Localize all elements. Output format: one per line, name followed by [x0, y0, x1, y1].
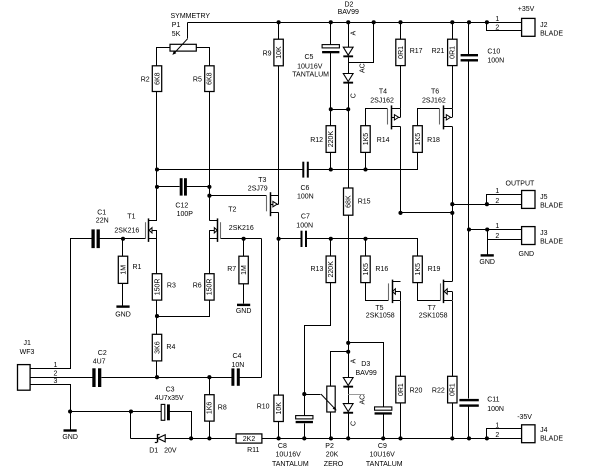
svg-text:R1: R1	[133, 264, 142, 271]
wire rail to D2	[348, 23, 350, 48]
resistor R1	[118, 256, 141, 283]
node D3 C9	[346, 341, 350, 345]
svg-text:T7: T7	[428, 305, 436, 312]
svg-text:C11: C11	[487, 396, 499, 403]
wire node C5/D2	[331, 109, 349, 111]
connector J4 BLADE -35V	[495, 414, 563, 443]
resistor R9	[263, 39, 284, 66]
wire R13 bottom jog	[305, 283, 331, 416]
svg-text:10K: 10K	[276, 46, 283, 59]
wire T6 drain to T7 drain	[452, 127, 454, 282]
node rail J4	[485, 436, 489, 440]
svg-text:20K: 20K	[326, 452, 339, 459]
wire T2 gate to C4	[261, 239, 263, 378]
node rail R21	[450, 20, 454, 24]
transistor T3 2SJ79	[267, 192, 279, 216]
wire T5 source to R20	[400, 301, 402, 377]
resistor R12	[310, 126, 335, 153]
wire rail to R21	[452, 23, 454, 40]
node input R4	[155, 375, 159, 379]
svg-text:22N: 22N	[96, 217, 109, 224]
node output J5	[485, 202, 489, 206]
svg-text:1: 1	[495, 16, 499, 23]
svg-text:D3: D3	[361, 361, 370, 368]
svg-text:150R: 150R	[207, 279, 214, 296]
connector J2 BLADE +35V	[495, 6, 563, 38]
wire C4 right	[240, 377, 262, 379]
svg-text:C12: C12	[175, 202, 188, 209]
svg-text:68K: 68K	[346, 195, 353, 208]
capacitor C11 100N	[459, 396, 504, 413]
svg-text:R21: R21	[432, 48, 445, 55]
svg-text:1: 1	[495, 188, 499, 195]
resistor R14	[361, 126, 390, 153]
svg-text:R5: R5	[193, 77, 202, 84]
capacitor C1 22N	[91, 210, 108, 248]
wire T3 drain to R10	[278, 239, 280, 396]
node gnd C10	[467, 227, 471, 231]
svg-text:BLADE: BLADE	[540, 31, 563, 38]
wire C12 left	[157, 186, 180, 188]
node rail C10	[467, 20, 471, 24]
node input R8	[207, 375, 211, 379]
wire P2 bottom	[330, 413, 332, 439]
svg-text:T2: T2	[228, 207, 236, 214]
wire D2 AC to rail	[349, 23, 374, 63]
svg-text:R19: R19	[428, 266, 441, 273]
diode D2 BAV99	[338, 1, 367, 98]
svg-text:0R1: 0R1	[450, 383, 457, 396]
resistor R15	[344, 188, 371, 215]
wire C3 tap down	[130, 412, 132, 439]
node rail C11	[467, 436, 471, 440]
resistor R6	[193, 274, 214, 300]
wire T1 source to R3	[156, 239, 158, 274]
svg-text:R6: R6	[193, 283, 202, 290]
svg-text:T1: T1	[127, 214, 135, 221]
svg-text:-35V: -35V	[517, 414, 532, 421]
svg-text:AC: AC	[360, 395, 367, 405]
wire J2 pin2 jog	[487, 23, 522, 31]
svg-text:220K: 220K	[328, 131, 335, 148]
wire rail to D1	[131, 438, 158, 440]
wire C7 to R13 R16 R19	[307, 239, 418, 257]
svg-text:1K5: 1K5	[415, 133, 422, 146]
svg-text:4U7: 4U7	[93, 359, 106, 366]
svg-text:GND: GND	[115, 312, 131, 319]
node R14 bottom	[363, 167, 367, 171]
svg-text:10U16V: 10U16V	[370, 452, 396, 459]
wire R7 top stub	[243, 239, 245, 257]
wire J5 pin1 jog	[487, 195, 522, 205]
svg-text:5K: 5K	[172, 31, 181, 38]
resistor R5	[193, 66, 214, 92]
svg-text:2SJ162: 2SJ162	[422, 98, 446, 105]
resistor R13	[311, 256, 336, 283]
svg-text:R13: R13	[311, 266, 324, 273]
wire gnd stub J1	[70, 411, 72, 430]
wire R18 to T6 gate	[418, 109, 440, 126]
svg-text:2SK216: 2SK216	[114, 227, 139, 234]
svg-text:0R1: 0R1	[398, 46, 405, 59]
wire P2 wiper wire	[305, 394, 321, 396]
svg-text:R11: R11	[247, 447, 259, 454]
svg-text:R12: R12	[310, 137, 323, 144]
ground under J1	[62, 429, 78, 441]
node C5 bias	[329, 107, 333, 111]
wire gnd row to C3	[71, 411, 162, 413]
svg-text:C6: C6	[301, 185, 310, 192]
svg-text:R17: R17	[410, 48, 423, 55]
wire T2 source to R6	[209, 239, 211, 274]
svg-text:2SJ79: 2SJ79	[248, 185, 268, 192]
node D2 C	[346, 107, 350, 111]
transistor T4 2SJ162	[388, 105, 401, 129]
svg-text:TANTALUM: TANTALUM	[366, 461, 403, 468]
svg-text:2SK1058: 2SK1058	[366, 312, 395, 319]
node rail C3	[189, 436, 193, 440]
svg-text:C10: C10	[487, 48, 500, 55]
resistor R17	[396, 39, 423, 65]
svg-text:BLADE: BLADE	[540, 239, 563, 246]
svg-text:2: 2	[53, 371, 57, 378]
svg-text:2SJ162: 2SJ162	[370, 98, 394, 105]
svg-text:2K2: 2K2	[243, 436, 256, 443]
transistor T7 2SK1058	[441, 280, 453, 304]
wire R2 to T1 drain	[156, 92, 158, 221]
resistor R19	[413, 256, 441, 283]
svg-text:J1: J1	[24, 340, 32, 347]
node T1 gate	[121, 237, 125, 241]
node T3 drain	[277, 237, 281, 241]
svg-text:R9: R9	[263, 51, 272, 58]
svg-text:1K5: 1K5	[415, 263, 422, 276]
svg-text:R10: R10	[257, 404, 270, 411]
node gnd J1	[68, 409, 72, 413]
wire C8 bottom	[304, 424, 306, 439]
svg-text:220K: 220K	[328, 261, 335, 278]
svg-text:A: A	[350, 31, 357, 36]
svg-text:1: 1	[495, 223, 499, 230]
node C12 left	[155, 185, 159, 189]
wire T3 gate	[210, 195, 267, 197]
resistor R11	[236, 434, 262, 454]
svg-text:R16: R16	[375, 266, 388, 273]
capacitor C7 100N	[296, 213, 313, 247]
node P2 wiper	[302, 392, 306, 396]
wire C5 to R12 top	[330, 53, 332, 126]
svg-text:D1: D1	[149, 448, 158, 455]
node rail J2	[485, 20, 489, 24]
connector J3 BLADE GND	[495, 223, 563, 258]
node rail P2	[329, 436, 333, 440]
node rail D2 AC	[372, 20, 376, 24]
wire R20 bottom	[400, 403, 402, 439]
wire R1 top stub	[122, 239, 124, 257]
svg-text:C8: C8	[278, 443, 287, 450]
wire T4 drain to output	[400, 127, 402, 213]
capacitor C6 100N	[297, 162, 314, 201]
resistor R22	[432, 376, 457, 403]
svg-text:R22: R22	[432, 388, 445, 395]
wire C3 right jog	[170, 412, 192, 439]
svg-text:TANTALUM: TANTALUM	[272, 461, 309, 468]
wire node to C7	[279, 238, 301, 240]
wire R21 to T6 source	[452, 66, 454, 109]
wire rail to C10	[468, 23, 470, 55]
svg-text:A: A	[350, 359, 357, 364]
svg-text:10U16V: 10U16V	[276, 452, 302, 459]
wire D3 to C9	[349, 343, 384, 407]
svg-text:100N: 100N	[487, 406, 504, 413]
svg-text:1M: 1M	[241, 265, 248, 275]
transistor T2 2SK216	[209, 218, 220, 242]
svg-text:BLADE: BLADE	[540, 203, 563, 210]
svg-text:T3: T3	[258, 177, 266, 184]
connector J5 BLADE OUTPUT	[495, 180, 563, 209]
svg-text:1: 1	[495, 423, 499, 430]
transistor T6 2SJ162	[440, 105, 453, 129]
svg-text:C1: C1	[97, 210, 106, 217]
wire J4 pin1 jog	[487, 429, 522, 439]
svg-text:BAV99: BAV99	[356, 370, 377, 377]
wire P1 right to R5	[197, 48, 210, 92]
resistor R10	[257, 395, 284, 421]
wire R15 to D3	[348, 216, 350, 378]
wire rail to C5	[330, 23, 332, 45]
svg-text:6K8: 6K8	[154, 72, 161, 85]
wire D3 to P2 top	[331, 352, 349, 387]
resistor R16	[361, 256, 389, 283]
node rail D3	[346, 436, 350, 440]
svg-text:J4: J4	[540, 427, 548, 434]
wire R8 bottom	[209, 422, 211, 439]
svg-text:C: C	[350, 93, 357, 98]
svg-text:2: 2	[495, 198, 499, 205]
wire C11 bottom	[468, 407, 470, 439]
wire C2 to C4	[102, 377, 232, 379]
svg-text:0R1: 0R1	[398, 383, 405, 396]
wire R16 top stub	[365, 239, 367, 257]
wire -35V bottom rail	[262, 438, 522, 440]
svg-text:2SK216: 2SK216	[229, 225, 254, 232]
resistor R8	[205, 395, 227, 421]
capacitor C4 10N	[231, 353, 244, 386]
svg-text:P1: P1	[172, 22, 181, 29]
wire T3 drain to C7	[278, 213, 280, 239]
resistor R20	[396, 376, 423, 403]
svg-text:D2: D2	[345, 1, 354, 8]
wire D2 C to R15	[348, 84, 350, 189]
wire C12 right	[187, 186, 210, 188]
node R16 top	[363, 237, 367, 241]
svg-text:C3: C3	[166, 386, 175, 393]
wire T7 source to R22	[452, 301, 454, 377]
svg-text:T5: T5	[375, 305, 383, 312]
svg-text:100N: 100N	[296, 223, 313, 230]
svg-text:R7: R7	[227, 266, 236, 273]
wire T2 gate row	[221, 238, 262, 240]
svg-text:10U16V: 10U16V	[297, 63, 323, 70]
node rail C5	[329, 20, 333, 24]
svg-text:T4: T4	[379, 88, 387, 95]
svg-text:R4: R4	[166, 344, 175, 351]
node gnd C3	[129, 409, 133, 413]
wire R19 to T7 gate	[418, 283, 441, 301]
svg-text:C2: C2	[98, 350, 107, 357]
svg-text:+35V: +35V	[518, 6, 535, 13]
svg-text:AC: AC	[360, 63, 367, 73]
node R12 bottom	[329, 167, 333, 171]
wire output to J5	[453, 204, 522, 206]
wire J3 gnd stub	[487, 240, 489, 255]
potentiometer P1 5K SYMMETRY	[170, 13, 210, 55]
label T4	[370, 88, 394, 104]
wire gnd to J3 pin1	[469, 229, 522, 231]
svg-text:2SK1058: 2SK1058	[419, 312, 448, 319]
svg-text:C4: C4	[233, 353, 242, 360]
svg-text:BAV99: BAV99	[338, 9, 359, 16]
resistor R2	[141, 66, 162, 92]
wire R9 to T3 source	[278, 66, 280, 196]
svg-text:R14: R14	[377, 137, 390, 144]
resistor R7	[227, 256, 248, 284]
ground near J3	[479, 254, 495, 266]
resistor R18	[413, 126, 440, 153]
svg-text:C9: C9	[378, 443, 387, 450]
resistor R3	[152, 274, 176, 300]
node rail R9	[277, 20, 281, 24]
wire D3 to -35V rail	[348, 414, 350, 439]
svg-text:6K8: 6K8	[207, 72, 214, 85]
wire C10 to C11	[468, 62, 470, 399]
resistor R4	[152, 334, 175, 361]
svg-text:P2: P2	[325, 443, 334, 450]
node R13 top	[329, 237, 333, 241]
node output T6	[450, 211, 454, 215]
svg-text:BLADE: BLADE	[540, 435, 563, 442]
transistor T1 2SK216	[146, 218, 158, 242]
wire rail to R17	[400, 23, 402, 40]
svg-text:SYMMETRY: SYMMETRY	[171, 13, 211, 20]
wire C1 to T1 gate	[100, 238, 146, 240]
svg-text:20V: 20V	[164, 448, 177, 455]
capacitor C5 10U16V tantalum	[292, 45, 339, 79]
node R7 top	[242, 237, 246, 241]
node output T4	[398, 211, 402, 215]
svg-text:WF3: WF3	[20, 349, 35, 356]
label T6	[422, 88, 446, 104]
connector J1 WF3	[18, 340, 58, 390]
svg-text:ZERO: ZERO	[324, 461, 344, 468]
wire R7 to gnd	[243, 284, 245, 304]
label T7	[419, 305, 448, 319]
wire +35V top rail	[188, 22, 522, 24]
zener diode D1 20V	[149, 434, 177, 454]
svg-text:GND: GND	[519, 251, 535, 258]
svg-text:10N: 10N	[232, 362, 245, 369]
svg-text:2: 2	[495, 233, 499, 240]
capacitor C2 4U7	[92, 350, 107, 387]
wire T1 drain to C6	[157, 169, 303, 171]
svg-text:R3: R3	[167, 283, 176, 290]
capacitor C12 100P	[175, 178, 193, 218]
svg-text:GND: GND	[479, 259, 495, 266]
svg-text:100P: 100P	[177, 211, 194, 218]
node rail R10	[277, 436, 281, 440]
svg-text:C5: C5	[305, 54, 314, 61]
wire R14 to T4 gate	[366, 109, 388, 126]
node rail R20	[398, 436, 402, 440]
svg-text:GND: GND	[62, 434, 78, 441]
wire C6 to R12 R14 R18	[309, 153, 418, 170]
svg-text:C: C	[350, 421, 357, 426]
svg-text:C7: C7	[301, 213, 310, 220]
svg-text:2: 2	[495, 24, 499, 31]
diode D3 BAV99	[343, 359, 377, 427]
capacitor C10 100N	[461, 48, 505, 64]
svg-text:150R: 150R	[154, 279, 161, 296]
wire R16 to T5 gate	[366, 283, 389, 301]
svg-text:R8: R8	[218, 404, 227, 411]
node rail R17	[398, 20, 402, 24]
capacitor C9 10U16V tantalum	[366, 407, 403, 468]
wire R4 bottom	[156, 361, 158, 378]
wire R22 bottom	[452, 403, 454, 439]
svg-text:T6: T6	[431, 88, 439, 95]
wire R1 to gnd	[122, 284, 124, 306]
wire D1 to R11	[166, 438, 237, 440]
svg-text:1M: 1M	[120, 265, 127, 275]
wire P1 left to R2	[157, 48, 171, 66]
wire R3 to R4	[156, 301, 158, 335]
wire R14 bottom	[365, 153, 367, 170]
wire R5 to T2 drain	[209, 92, 211, 221]
svg-text:J3: J3	[540, 230, 548, 237]
node rail R8	[207, 436, 211, 440]
svg-text:GND: GND	[236, 308, 252, 315]
svg-text:100N: 100N	[487, 57, 504, 64]
wire R10 bottom	[278, 422, 280, 439]
wire R8 top stub	[209, 378, 211, 395]
svg-text:1K6: 1K6	[207, 402, 214, 415]
svg-text:R20: R20	[410, 388, 423, 395]
node rail D2	[346, 20, 350, 24]
svg-text:OUTPUT: OUTPUT	[506, 180, 536, 187]
svg-text:TANTALUM: TANTALUM	[292, 71, 329, 78]
svg-text:2: 2	[495, 432, 499, 439]
wire R12 bottom	[330, 153, 332, 170]
resistor R21	[432, 39, 457, 65]
node T3 gate	[207, 194, 211, 198]
svg-text:J2: J2	[540, 22, 548, 29]
node T1 drain	[155, 167, 159, 171]
label T5	[366, 305, 395, 319]
node C12 right	[207, 185, 211, 189]
node rail C9	[381, 436, 385, 440]
svg-text:3: 3	[53, 378, 57, 385]
svg-text:R2: R2	[141, 77, 150, 84]
wire R17 to T4 source	[400, 66, 402, 109]
wire C9 bottom	[383, 415, 385, 439]
node rail R22	[450, 436, 454, 440]
transistor T5 2SK1058	[389, 280, 401, 304]
wire J1 pin3 to gnd	[31, 385, 71, 411]
capacitor C8 10U16V tantalum	[272, 416, 313, 469]
svg-text:10K: 10K	[276, 402, 283, 415]
wire J3 pin2 jog	[488, 230, 522, 240]
svg-text:4U7x35V: 4U7x35V	[155, 395, 184, 402]
